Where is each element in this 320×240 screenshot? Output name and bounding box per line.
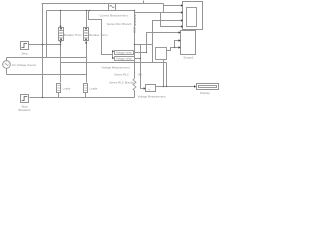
wire left outer vertical [42, 4, 44, 98]
wire scope2 in2 branch [175, 41, 179, 48]
svg-text:Step: Step [21, 52, 28, 56]
load block C2 [84, 84, 98, 93]
scope 1 top right [183, 2, 203, 30]
display block D [197, 84, 219, 96]
wire breaker2 top drop [86, 11, 88, 28]
svg-text:Voltage meas: Voltage meas [116, 51, 132, 55]
wire ac top [7, 57, 87, 59]
wire breaker1 top drop [60, 11, 62, 27]
voltage measurement R2 [115, 57, 135, 61]
arrow into breaker B [85, 41, 87, 43]
wire right riser [164, 48, 179, 87]
svg-text:Breaker Thcm: Breaker Thcm [64, 33, 83, 37]
load block C1 [57, 84, 71, 93]
voltage measurement R1 [115, 51, 134, 55]
wire branch to measurements [89, 11, 113, 55]
inductor RLC1 ticks [133, 14, 135, 32]
wire scope in1 [164, 5, 181, 7]
svg-text:Series RLC: Series RLC [114, 72, 129, 76]
arrow into R2 [112, 57, 114, 59]
svg-text:Display: Display [200, 91, 210, 95]
junction dots [42, 10, 176, 98]
svg-text:Loads: Loads [63, 86, 71, 90]
wire H2 drop to display [166, 63, 168, 87]
arrows into scope1 [181, 4, 183, 6]
svg-text:Current Measurement: Current Measurement [99, 13, 127, 17]
svg-text:Breaker Thcm: Breaker Thcm [89, 33, 108, 37]
svg-text:Loads: Loads [90, 86, 98, 90]
square block SQ1 [156, 48, 167, 60]
current measurement block [99, 4, 127, 18]
step block S1 [21, 42, 29, 56]
wire ac riser bottom [6, 69, 8, 75]
arrows into scope2 [179, 31, 181, 33]
wire node collector [135, 44, 153, 46]
wire top horizontal [42, 3, 164, 5]
wire main line left [47, 10, 135, 12]
wire R2 out [135, 58, 141, 60]
wire load2 stub [85, 93, 87, 98]
arrow into VM [144, 87, 146, 89]
scope 2 right middle [181, 31, 196, 60]
wire breaker2 bottom drop [86, 41, 88, 83]
wire scope in4 drop [161, 13, 181, 27]
breaker block A [59, 28, 83, 41]
svg-text:Scope1: Scope1 [183, 56, 194, 60]
svg-text:(R): (R) [138, 72, 142, 76]
step block S2 [19, 95, 32, 112]
wire scope2 in1 riser [147, 33, 179, 53]
wire vm input bar [112, 51, 114, 58]
wire scope in1 jog [163, 4, 165, 13]
wire scope in3 riser [153, 21, 181, 63]
wire inner left vertical [46, 11, 48, 58]
svg-text:Voltage Measurement: Voltage Measurement [101, 66, 129, 70]
arrow into R1 [112, 50, 114, 52]
arrow below breaker A [59, 41, 61, 43]
svg-text:AC Voltage Source: AC Voltage Source [12, 63, 37, 67]
svg-text:Voltage meas: Voltage meas [116, 57, 132, 61]
AC voltage source [3, 61, 37, 69]
svg-text:Voltage Measurement: Voltage Measurement [137, 94, 165, 98]
wire top edge stub [143, 1, 145, 4]
wire ac riser top [6, 58, 8, 61]
wire step1 out [29, 44, 61, 46]
resistor zigzag [133, 79, 136, 91]
wire bottom bus [30, 97, 135, 99]
wire zigzag bottom link [134, 91, 136, 98]
wire to scope in2 [135, 12, 181, 14]
wire load1 stub [58, 93, 60, 98]
voltage measurement block VM [137, 85, 165, 99]
wire RLC1 vertical [134, 11, 136, 79]
arrow into breaker A [59, 26, 61, 28]
svg-text:Series RLC Branch: Series RLC Branch [107, 22, 132, 26]
svg-text:Breaker1: Breaker1 [19, 108, 32, 112]
wire mid branch vertical [141, 45, 145, 89]
wire vm out to display [156, 86, 195, 88]
arrow into display [194, 85, 196, 87]
wire mid horizontal [61, 62, 167, 64]
wire breaker1 bottom drop [60, 41, 62, 83]
wire R1 out [134, 52, 147, 54]
breaker block B [84, 28, 109, 41]
svg-text:Series RLC Branch: Series RLC Branch [109, 81, 134, 85]
wire ac bottom [7, 74, 87, 76]
